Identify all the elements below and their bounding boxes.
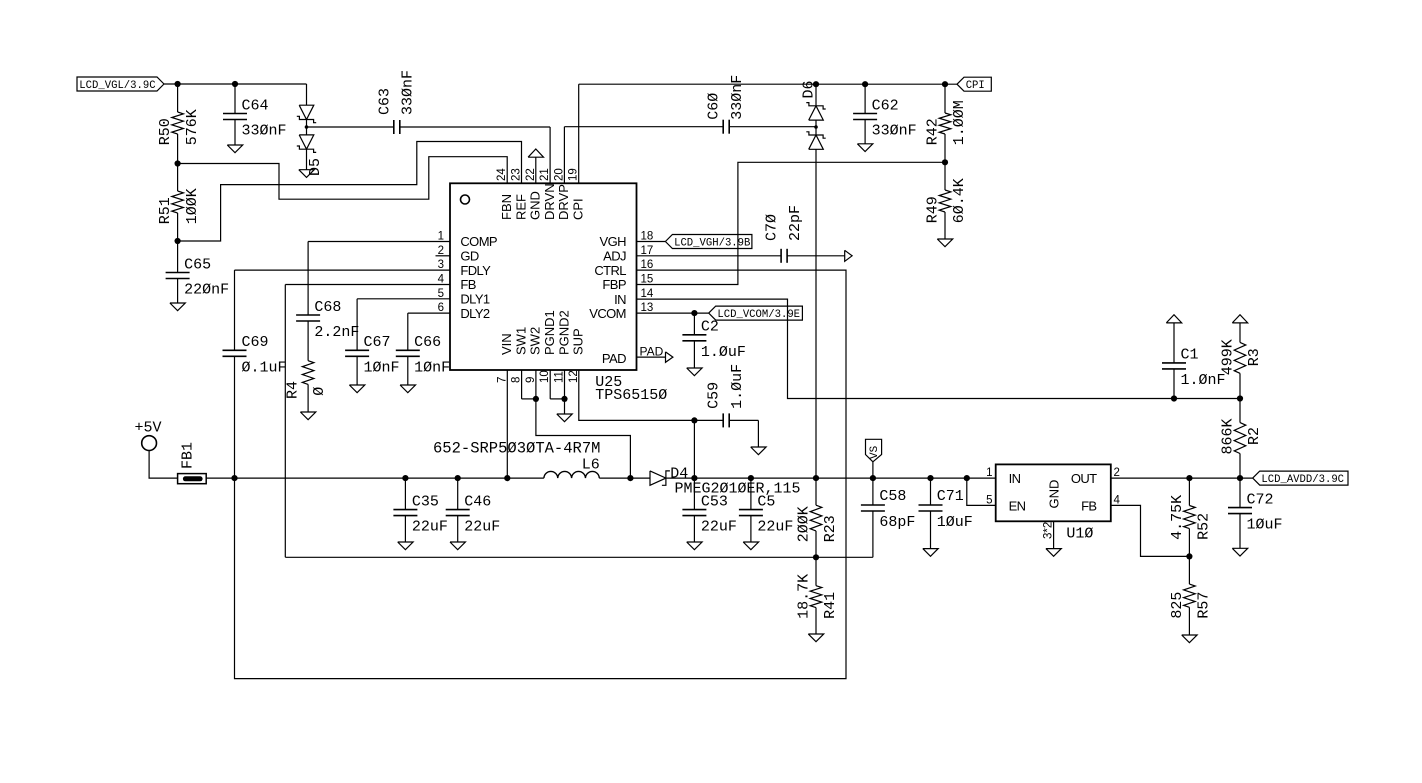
svg-text:33ØnF: 33ØnF: [872, 123, 917, 140]
svg-text:8: 8: [511, 377, 523, 383]
svg-text:6: 6: [438, 302, 444, 314]
svg-text:REF: REF: [513, 194, 528, 220]
svg-text:C62: C62: [872, 97, 899, 114]
svg-text:EN: EN: [1009, 498, 1026, 513]
svg-text:L6: L6: [582, 456, 600, 473]
svg-text:LCD_VGH/3.9B: LCD_VGH/3.9B: [674, 237, 750, 249]
svg-text:C1: C1: [1181, 347, 1199, 364]
svg-text:D5: D5: [307, 158, 324, 176]
svg-text:1: 1: [986, 467, 992, 479]
svg-text:R3: R3: [1246, 348, 1263, 366]
svg-text:TPS6515Ø: TPS6515Ø: [595, 387, 667, 404]
svg-text:17: 17: [641, 245, 654, 257]
svg-text:16: 16: [641, 259, 654, 271]
svg-text:CPI: CPI: [571, 198, 586, 220]
svg-text:C7Ø: C7Ø: [764, 214, 781, 241]
svg-text:FDLY: FDLY: [460, 263, 491, 278]
svg-text:PGND2: PGND2: [556, 310, 571, 355]
svg-text:652-SRP5Ø3ØTA-4R7M: 652-SRP5Ø3ØTA-4R7M: [433, 440, 600, 458]
svg-text:GND: GND: [1047, 480, 1062, 509]
svg-text:D6: D6: [801, 80, 818, 98]
svg-text:22uF: 22uF: [757, 519, 793, 536]
svg-text:C2: C2: [701, 319, 719, 336]
svg-text:R52: R52: [1196, 513, 1213, 540]
svg-text:5: 5: [438, 288, 444, 300]
svg-text:C67: C67: [364, 334, 391, 351]
svg-text:12: 12: [568, 370, 580, 383]
svg-text:R23: R23: [822, 515, 839, 542]
svg-text:22pF: 22pF: [787, 205, 804, 241]
svg-text:C58: C58: [879, 488, 906, 505]
svg-text:COMP: COMP: [460, 234, 497, 249]
svg-text:1ØuF: 1ØuF: [937, 514, 973, 531]
svg-text:VS: VS: [869, 445, 881, 459]
svg-text:5: 5: [986, 494, 992, 506]
svg-text:33ØnF: 33ØnF: [729, 75, 746, 120]
svg-text:OUT: OUT: [1071, 471, 1097, 486]
svg-text:+5V: +5V: [135, 420, 162, 437]
svg-text:19: 19: [568, 168, 580, 181]
svg-text:C46: C46: [464, 493, 491, 510]
svg-text:1ØØK: 1ØØK: [184, 188, 201, 224]
svg-text:6Ø.4K: 6Ø.4K: [951, 178, 968, 223]
svg-text:U1Ø: U1Ø: [1066, 525, 1093, 542]
svg-text:R4: R4: [284, 381, 301, 399]
svg-text:C72: C72: [1247, 491, 1274, 508]
svg-text:2: 2: [1114, 467, 1120, 479]
svg-text:9: 9: [525, 377, 537, 383]
svg-text:IN: IN: [1009, 471, 1021, 486]
svg-text:68pF: 68pF: [879, 514, 915, 531]
svg-text:R41: R41: [822, 592, 839, 619]
svg-text:2: 2: [438, 245, 444, 257]
svg-text:DRVP: DRVP: [556, 184, 571, 220]
svg-text:DLY2: DLY2: [460, 306, 490, 321]
svg-text:FB1: FB1: [180, 442, 197, 469]
svg-text:499K: 499K: [1219, 339, 1236, 375]
svg-text:IN: IN: [614, 292, 626, 307]
svg-text:FB: FB: [1081, 498, 1096, 513]
svg-text:7: 7: [496, 377, 508, 383]
svg-text:22ØnF: 22ØnF: [184, 282, 229, 299]
svg-text:SW1: SW1: [513, 327, 528, 355]
svg-text:825: 825: [1169, 592, 1186, 619]
svg-text:Ø: Ø: [311, 387, 328, 396]
svg-text:C59: C59: [706, 382, 723, 409]
svg-text:C71: C71: [937, 488, 964, 505]
svg-text:LCD_AVDD/3.9C: LCD_AVDD/3.9C: [1261, 474, 1344, 486]
svg-text:C64: C64: [242, 97, 269, 114]
svg-text:2.2nF: 2.2nF: [314, 324, 359, 341]
svg-text:CPI: CPI: [966, 80, 985, 92]
svg-text:1ØnF: 1ØnF: [364, 359, 400, 376]
svg-text:DRVN: DRVN: [542, 183, 557, 220]
svg-text:GND: GND: [528, 191, 543, 220]
svg-text:R42: R42: [924, 118, 941, 145]
svg-text:SUP: SUP: [571, 328, 586, 355]
svg-text:R50: R50: [157, 118, 174, 145]
svg-text:13: 13: [641, 302, 654, 314]
svg-text:C35: C35: [412, 493, 439, 510]
svg-text:4: 4: [1114, 494, 1121, 506]
svg-text:R57: R57: [1196, 592, 1213, 619]
svg-text:22uF: 22uF: [701, 519, 737, 536]
svg-text:14: 14: [641, 288, 654, 300]
svg-text:576K: 576K: [184, 109, 201, 145]
svg-text:VGH: VGH: [600, 234, 627, 249]
svg-text:FBN: FBN: [499, 194, 514, 220]
svg-text:C63: C63: [376, 88, 393, 115]
svg-text:33ØnF: 33ØnF: [400, 70, 417, 115]
svg-text:1ØnF: 1ØnF: [414, 359, 450, 376]
svg-text:18.7K: 18.7K: [795, 574, 812, 619]
svg-text:PMEG2Ø1ØER,115: PMEG2Ø1ØER,115: [675, 481, 801, 498]
svg-text:PAD: PAD: [640, 345, 664, 359]
svg-text:GD: GD: [460, 249, 479, 264]
svg-text:C5: C5: [757, 493, 775, 510]
svg-text:C66: C66: [414, 334, 441, 351]
svg-text:C53: C53: [701, 493, 728, 510]
svg-text:FB: FB: [460, 277, 475, 292]
svg-text:22uF: 22uF: [412, 519, 448, 536]
svg-text:1.ØnF: 1.ØnF: [1181, 372, 1226, 389]
svg-text:1.ØØM: 1.ØØM: [951, 100, 968, 145]
svg-text:LCD_VCOM/3.9E: LCD_VCOM/3.9E: [717, 309, 800, 321]
svg-text:FBP: FBP: [602, 277, 625, 292]
svg-text:VCOM: VCOM: [589, 306, 626, 321]
svg-text:C68: C68: [314, 299, 341, 316]
svg-text:22: 22: [525, 168, 537, 181]
svg-text:11: 11: [554, 371, 566, 383]
svg-text:866K: 866K: [1219, 418, 1236, 454]
svg-text:23: 23: [511, 168, 523, 181]
svg-text:18: 18: [641, 231, 654, 243]
svg-text:C6Ø: C6Ø: [706, 93, 723, 120]
svg-text:1: 1: [438, 231, 444, 243]
svg-text:C65: C65: [184, 256, 211, 273]
svg-text:10: 10: [539, 370, 551, 383]
svg-text:C69: C69: [242, 334, 269, 351]
svg-text:ADJ: ADJ: [603, 249, 626, 264]
svg-text:3: 3: [438, 259, 444, 271]
svg-text:3*2: 3*2: [1043, 522, 1055, 539]
svg-text:Ø.1uF: Ø.1uF: [242, 359, 287, 376]
svg-text:21: 21: [539, 168, 551, 181]
svg-text:PAD: PAD: [602, 351, 626, 366]
svg-text:1.ØuF: 1.ØuF: [729, 364, 746, 409]
svg-text:LCD_VGL/3.9C: LCD_VGL/3.9C: [79, 80, 155, 92]
svg-text:CTRL: CTRL: [594, 263, 626, 278]
svg-text:1ØuF: 1ØuF: [1247, 517, 1283, 534]
svg-text:R51: R51: [157, 197, 174, 224]
svg-text:4.75K: 4.75K: [1169, 495, 1186, 540]
svg-text:PGND1: PGND1: [542, 310, 557, 355]
svg-text:33ØnF: 33ØnF: [242, 123, 287, 140]
svg-text:4: 4: [438, 274, 445, 286]
svg-text:DLY1: DLY1: [460, 292, 490, 307]
svg-text:VIN: VIN: [499, 333, 514, 355]
svg-text:R49: R49: [924, 196, 941, 223]
svg-text:22uF: 22uF: [464, 519, 500, 536]
svg-text:1.ØuF: 1.ØuF: [701, 344, 746, 361]
svg-text:20: 20: [553, 168, 565, 181]
svg-text:2ØØK: 2ØØK: [795, 506, 812, 542]
svg-text:SW2: SW2: [528, 327, 543, 355]
svg-text:15: 15: [641, 274, 654, 286]
svg-text:R2: R2: [1246, 427, 1263, 445]
svg-text:24: 24: [496, 168, 508, 181]
